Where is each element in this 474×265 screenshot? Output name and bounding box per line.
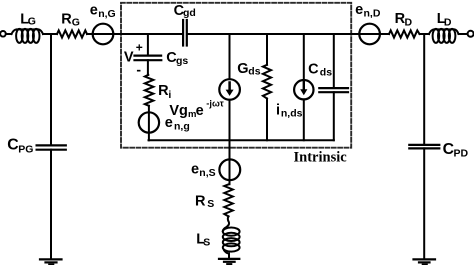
resistor RS (224, 184, 233, 216)
resistor Gds (263, 65, 271, 99)
svg-text:D: D (444, 16, 452, 28)
svg-text:S: S (203, 237, 210, 249)
svg-text:D: D (405, 16, 413, 28)
svg-text:+: + (136, 41, 143, 55)
node Cgs branch (147, 34, 149, 55)
inductor LS (223, 228, 240, 236)
svg-text:G: G (72, 16, 80, 28)
ground drain side (414, 258, 436, 260)
capacitor Cds (319, 87, 348, 89)
wire LS to ground (228, 254, 230, 259)
noise source enD (359, 24, 380, 45)
noise source enS (219, 159, 240, 180)
svg-text:G: G (237, 61, 248, 77)
svg-text:n,ds: n,ds (281, 107, 303, 119)
svg-text:n,g: n,g (174, 120, 190, 132)
svg-text:S: S (207, 198, 214, 210)
svg-text:PG: PG (18, 143, 33, 155)
svg-text:V: V (124, 50, 134, 66)
svg-text:n,G: n,G (98, 8, 116, 20)
svg-text:C: C (443, 141, 454, 158)
wire LG to RG with node to CPG (43, 33, 57, 35)
wire Cds branch (333, 34, 335, 140)
controlled source Vgm (219, 79, 240, 100)
resistor Ri (145, 75, 154, 106)
svg-text:i: i (276, 102, 280, 118)
svg-text:Vg: Vg (169, 103, 188, 119)
wire Gds branch (266, 34, 268, 140)
ground source (219, 258, 239, 260)
wire inds branch (303, 34, 305, 140)
wire LD to drain port (459, 33, 467, 35)
wire Vgm branch top (229, 34, 231, 79)
noise source enG (93, 24, 114, 45)
svg-text:n,D: n,D (364, 8, 381, 20)
wire source branch below rail (229, 140, 231, 184)
svg-text:i: i (168, 89, 171, 101)
capacitor Cgd (182, 20, 184, 46)
svg-text:-jωτ: -jωτ (206, 99, 223, 109)
wire Ri to bottom rail through eng (148, 106, 150, 141)
wire Cgd to enD (188, 33, 389, 35)
ground gate side (40, 258, 62, 260)
svg-text:R: R (61, 11, 72, 27)
resistor RG (57, 30, 87, 37)
node gate pad / wire down to CPG (50, 34, 52, 145)
wire Vgm branch bottom (229, 100, 231, 141)
noise current source inds (294, 80, 313, 99)
svg-text:n,S: n,S (199, 167, 215, 179)
port gate terminal (0, 31, 6, 37)
wire RG to Cgd (87, 33, 182, 35)
noise source eng (139, 112, 159, 132)
wire RS to LS (223, 216, 229, 231)
wire gate input (6, 33, 12, 35)
svg-text:e: e (355, 2, 363, 18)
svg-text:R: R (195, 193, 206, 209)
capacitor CPG (37, 144, 66, 146)
port drain terminal (468, 31, 474, 37)
bottom rail intrinsic (149, 139, 334, 141)
intrinsic box (121, 3, 351, 148)
svg-text:e: e (196, 103, 204, 119)
inductor LD (429, 29, 459, 34)
node drain pad / wire down to CPD (423, 34, 425, 145)
svg-text:C: C (308, 62, 319, 78)
inductor LG (12, 29, 44, 34)
svg-text:G: G (28, 16, 36, 28)
svg-text:-: - (136, 61, 141, 77)
svg-text:C: C (7, 137, 18, 154)
svg-text:Intrinsic: Intrinsic (294, 149, 348, 165)
svg-text:gs: gs (176, 55, 188, 67)
svg-text:PD: PD (454, 148, 469, 160)
wire CPD to ground (423, 148, 425, 259)
svg-text:e: e (191, 161, 199, 177)
svg-text:e: e (90, 2, 98, 18)
wire RD to LD with node to CPD (420, 33, 430, 35)
capacitor CPD (409, 144, 439, 146)
svg-text:ds: ds (320, 67, 332, 79)
resistor RD (389, 30, 420, 37)
wire CPG to ground (50, 150, 52, 260)
wire Cgs to Ri (147, 60, 149, 75)
capacitor Cgs (135, 54, 162, 56)
svg-text:gd: gd (183, 7, 196, 19)
svg-text:ds: ds (248, 66, 260, 78)
